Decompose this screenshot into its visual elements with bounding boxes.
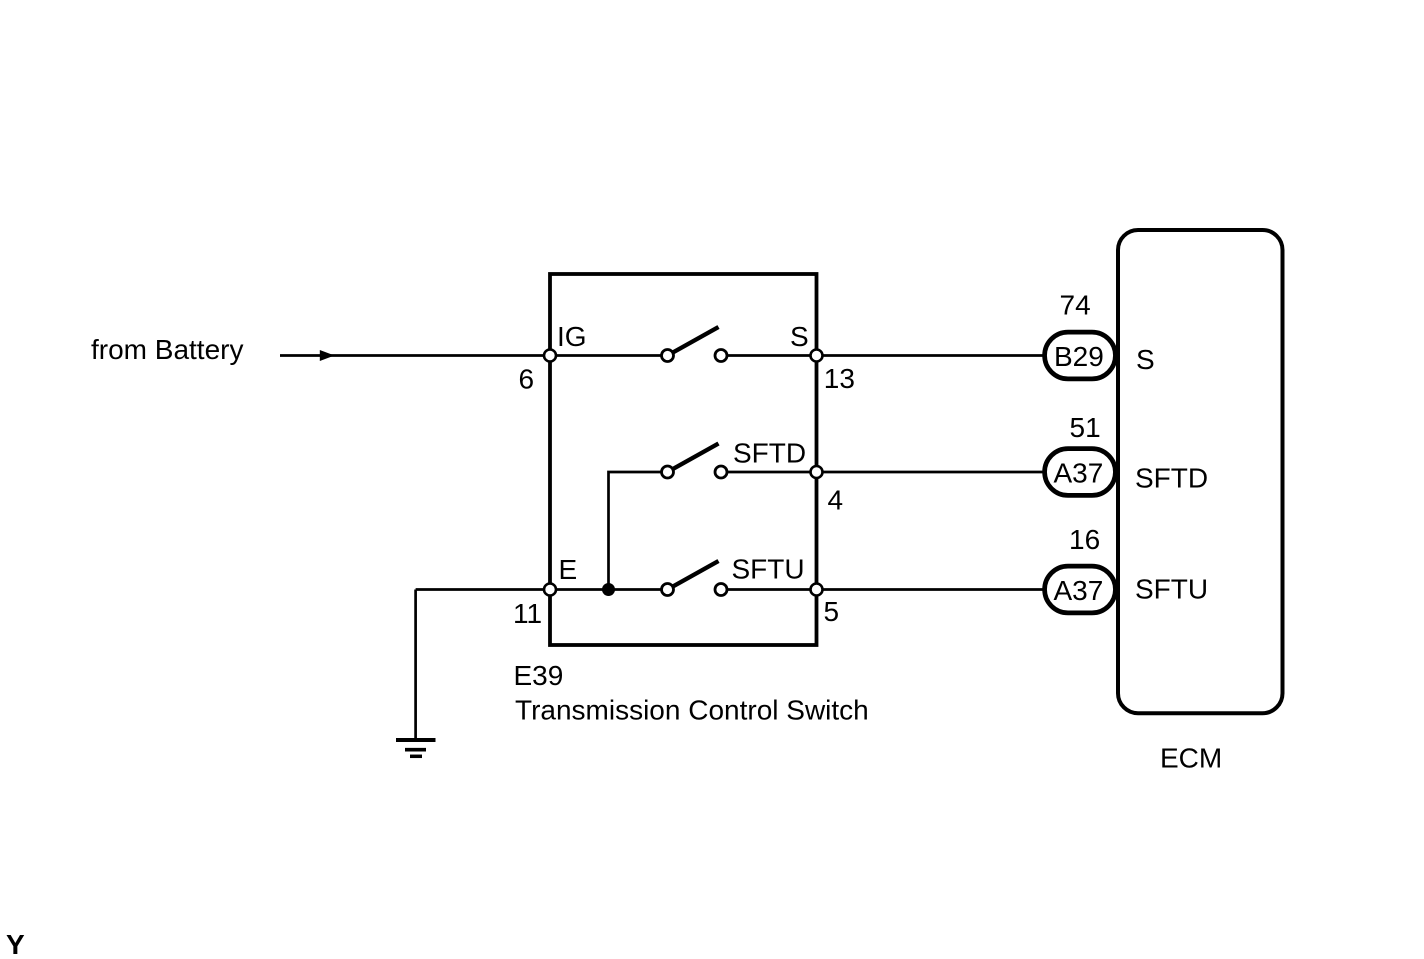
svg-text:S: S bbox=[1136, 344, 1155, 375]
svg-text:SFTU: SFTU bbox=[732, 554, 805, 585]
svg-text:13: 13 bbox=[824, 363, 855, 394]
svg-text:ECM: ECM bbox=[1160, 743, 1222, 774]
svg-text:Y: Y bbox=[6, 929, 25, 959]
svg-text:B29: B29 bbox=[1054, 341, 1104, 372]
svg-text:from Battery: from Battery bbox=[91, 334, 243, 365]
svg-text:4: 4 bbox=[828, 485, 844, 516]
svg-text:74: 74 bbox=[1060, 290, 1091, 321]
svg-text:16: 16 bbox=[1069, 524, 1100, 555]
svg-text:A37: A37 bbox=[1054, 458, 1104, 489]
svg-text:51: 51 bbox=[1070, 412, 1101, 443]
svg-text:SFTD: SFTD bbox=[1135, 463, 1208, 494]
svg-text:A37: A37 bbox=[1054, 575, 1104, 606]
svg-text:11: 11 bbox=[513, 598, 542, 629]
svg-text:6: 6 bbox=[519, 364, 535, 395]
svg-text:S: S bbox=[790, 321, 809, 352]
svg-text:Transmission Control Switch: Transmission Control Switch bbox=[515, 695, 869, 726]
svg-text:5: 5 bbox=[824, 596, 840, 627]
svg-text:SFTU: SFTU bbox=[1135, 574, 1208, 605]
svg-text:E39: E39 bbox=[514, 660, 564, 691]
svg-text:IG: IG bbox=[557, 321, 587, 352]
svg-text:SFTD: SFTD bbox=[733, 438, 806, 469]
svg-text:E: E bbox=[559, 554, 578, 585]
